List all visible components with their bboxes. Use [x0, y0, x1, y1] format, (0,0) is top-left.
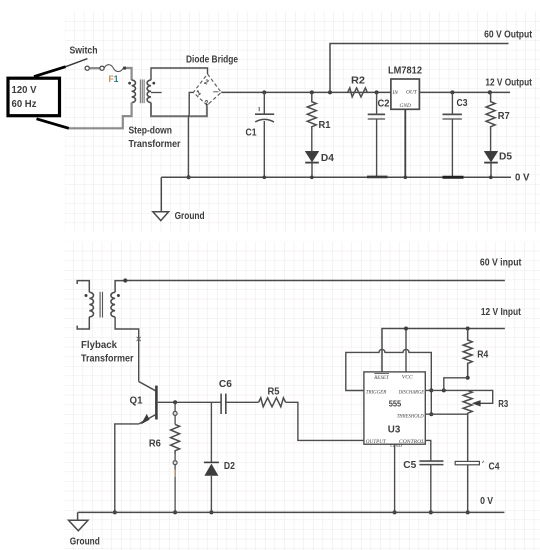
svg-text:Diode Bridge: Diode Bridge — [186, 55, 238, 66]
svg-text:Flyback: Flyback — [81, 340, 117, 351]
svg-text:12 V Input: 12 V Input — [481, 307, 521, 318]
resistor R4 — [463, 327, 488, 380]
wire: LM7812 GND pin to 0V rail — [404, 109, 406, 177]
wire: R3 bottom to C4 — [467, 416, 469, 462]
svg-text:60 V Output: 60 V Output — [484, 29, 532, 40]
svg-text:R7: R7 — [498, 111, 510, 122]
svg-text:R6: R6 — [149, 439, 161, 450]
svg-text:Ground: Ground — [70, 536, 100, 547]
svg-text:RESET: RESET — [373, 375, 389, 381]
svg-text:OUT: OUT — [406, 90, 418, 96]
flyback transformer core — [100, 292, 102, 318]
svg-text:12 V Output: 12 V Output — [485, 77, 532, 88]
transformer T1 step-down : primary winding — [128, 80, 135, 102]
regulator LM7812 — [388, 66, 422, 110]
svg-text:Ground: Ground — [175, 211, 205, 222]
capacitor C6 — [219, 379, 232, 414]
resistor R6 — [149, 402, 180, 514]
wire: secondary center tap stub — [151, 92, 162, 94]
resistor R5 — [259, 387, 286, 407]
svg-text:R5: R5 — [268, 387, 280, 398]
diode bridge — [186, 55, 238, 108]
wire: 60V output — [330, 44, 509, 93]
svg-text:R3: R3 — [498, 399, 508, 410]
svg-text:VCC: VCC — [402, 375, 413, 381]
svg-text:C3: C3 — [457, 98, 468, 109]
node: VCC junction — [404, 327, 408, 331]
wire: THRESHOLD to R3 bottom — [425, 413, 467, 415]
svg-text:C1: C1 — [246, 128, 257, 139]
wire: flyback secondary bottom to Q1 collector — [115, 317, 139, 382]
node: loop-threshold join — [429, 412, 433, 416]
fuse F1 — [104, 65, 126, 84]
wire: bottom 0V rail — [78, 511, 505, 513]
wire: R4 bottom to discharge — [444, 378, 468, 391]
connection point x mark — [137, 337, 141, 341]
wire: Q1 emitter to rail — [115, 424, 139, 513]
wire: thick lead from source to switch — [34, 67, 66, 77]
ground (top circuit) — [153, 177, 205, 222]
svg-text:C6: C6 — [219, 379, 232, 390]
wire: primary bottom back to source (gray) — [68, 103, 131, 129]
node: base junction — [173, 400, 177, 404]
wire: secondary top to bridge — [151, 68, 208, 80]
svg-text:THRESHOLD: THRESHOLD — [397, 413, 424, 419]
svg-text:U3: U3 — [388, 423, 401, 435]
capacitor C1 — [246, 90, 275, 179]
svg-text:Step-down: Step-down — [129, 125, 173, 136]
AC source 120V 60Hz — [8, 78, 60, 116]
wire: bridge minus to 0V rail — [188, 92, 193, 177]
ground (bottom circuit) — [69, 512, 100, 547]
wire: CONTROL pin down — [425, 440, 431, 461]
resistor R2 — [348, 76, 368, 97]
svg-text:R1: R1 — [319, 120, 331, 131]
label Step-down Transformer — [129, 125, 181, 150]
svg-text:R4: R4 — [477, 350, 488, 361]
svg-text:0 V: 0 V — [515, 172, 530, 183]
svg-text:DISCHARGE: DISCHARGE — [398, 389, 425, 395]
node: 12V output junction — [488, 90, 492, 94]
wire: VCC pin — [405, 329, 407, 372]
svg-text:OUTPUT: OUTPUT — [366, 439, 387, 445]
svg-text:F1: F1 — [109, 74, 119, 84]
capacitor C5 — [403, 460, 443, 514]
svg-text:D5: D5 — [499, 152, 512, 163]
svg-text:60 V input: 60 V input — [480, 258, 522, 269]
svg-text:D4: D4 — [321, 153, 334, 164]
wire: DC plus rail — [221, 91, 510, 93]
svg-text:120 V: 120 V — [12, 85, 37, 96]
node: R4 drop on discharge — [442, 388, 446, 392]
resistor R7 — [486, 92, 510, 151]
wire: GND pin to rail — [394, 444, 396, 512]
capacitor C4 — [455, 461, 500, 515]
svg-text:0 V: 0 V — [480, 496, 493, 507]
wire: DISCHARGE to R3 top — [425, 389, 467, 391]
555 timer U3 — [364, 372, 425, 448]
switch — [66, 46, 105, 71]
potentiometer R3 — [463, 390, 508, 415]
wire: secondary bottom to bridge — [151, 103, 207, 117]
label Flyback Transformer — [81, 340, 134, 365]
capacitor C2 — [367, 90, 390, 176]
node: bridge minus on rail — [187, 175, 191, 179]
node: 60V riser junction — [328, 90, 332, 94]
wire: trigger-threshold loop with hops — [346, 349, 432, 414]
transistor Q1 — [130, 382, 157, 425]
diode D5 — [484, 151, 512, 179]
capacitor C3 — [443, 90, 468, 177]
node: loop-discharge crossing — [429, 388, 433, 392]
diode D4 — [305, 151, 334, 179]
svg-text:LM7812: LM7812 — [388, 66, 422, 77]
wire: thick lead source bottom — [37, 119, 69, 129]
svg-text:Q1: Q1 — [130, 396, 143, 407]
svg-text:C4: C4 — [489, 462, 500, 473]
svg-text:D2: D2 — [224, 461, 235, 472]
svg-text:R2: R2 — [351, 76, 365, 87]
wire: 60V input line — [125, 280, 505, 282]
svg-text:CONTROL: CONTROL — [399, 439, 425, 445]
transformer T1 core — [140, 80, 144, 104]
svg-text:C2: C2 — [378, 98, 390, 109]
node: secondary top on 60V line — [123, 278, 127, 282]
flyback transformer : primary winding — [77, 281, 93, 329]
svg-text:Transformer: Transformer — [129, 139, 181, 150]
wire: C6 to R5 — [226, 401, 259, 403]
transformer T1 secondary winding — [147, 80, 155, 102]
wire: 0V rail — [161, 176, 511, 178]
svg-text:Switch: Switch — [70, 46, 98, 57]
wire: 12V input line and RESET drop — [382, 329, 505, 372]
resistor R1 — [307, 90, 330, 151]
wire: Q1 base — [158, 401, 221, 403]
flyback transformer : secondary winding — [111, 281, 125, 317]
svg-text:IN: IN — [392, 90, 399, 96]
diode D2 — [204, 402, 235, 514]
svg-text:GND: GND — [400, 103, 411, 109]
svg-text:TRIGGER: TRIGGER — [366, 389, 387, 395]
wire: fuse to transformer primary — [126, 68, 132, 80]
svg-text:Transformer: Transformer — [81, 354, 134, 365]
svg-text:C5: C5 — [403, 460, 416, 471]
svg-text:555: 555 — [389, 399, 402, 408]
svg-text:60 Hz: 60 Hz — [12, 99, 37, 110]
wire: R5 to 555 OUTPUT — [286, 402, 364, 440]
